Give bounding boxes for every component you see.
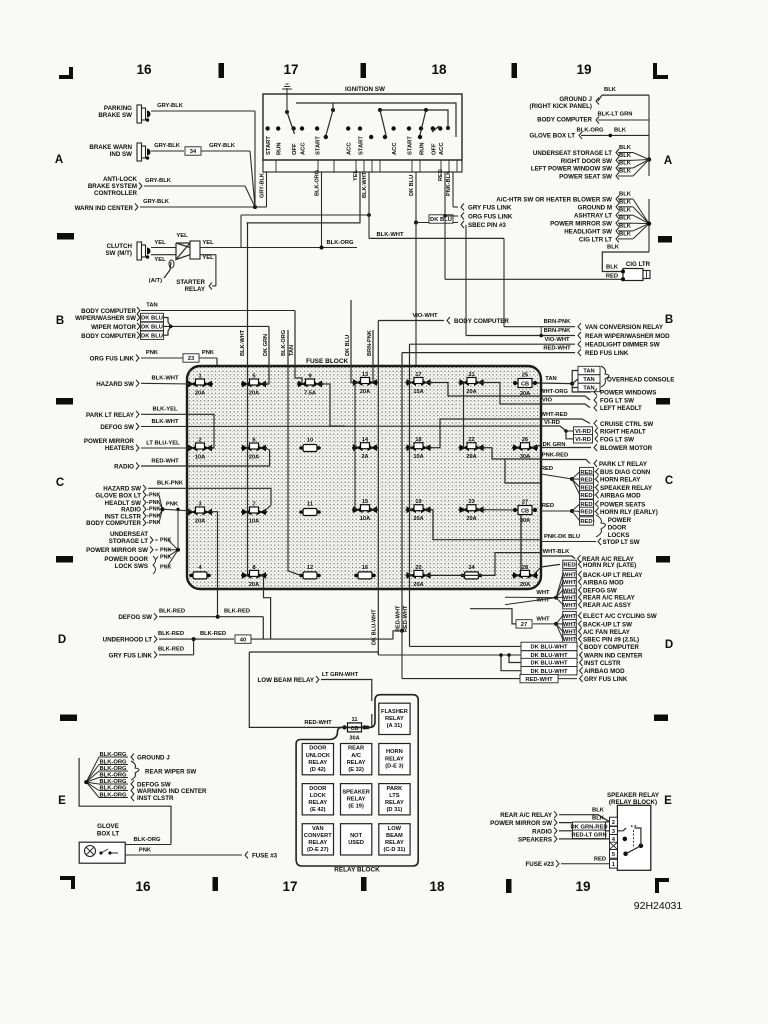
wire box outline region D <box>249 652 378 727</box>
svg-text:AIRBAG MOD: AIRBAG MOD <box>600 492 641 499</box>
svg-text:12: 12 <box>307 565 313 571</box>
warning ind center label E <box>131 787 207 795</box>
svg-text:BLK: BLK <box>614 128 627 134</box>
wire fuse17 right to WHT-ORG exit <box>427 383 542 397</box>
relay cell FLASHER RELAY (A 31) <box>379 703 410 734</box>
svg-text:RED: RED <box>541 466 553 472</box>
svg-text:15: 15 <box>362 499 368 505</box>
svg-text:BLK: BLK <box>604 87 617 93</box>
svg-text:STORAGE LT: STORAGE LT <box>109 538 149 545</box>
svg-text:BLK-ORG: BLK-ORG <box>281 330 287 356</box>
svg-text:ACC: ACC <box>301 142 307 155</box>
svg-text:16: 16 <box>135 879 151 894</box>
svg-text:GRY FUS LINK: GRY FUS LINK <box>109 652 153 659</box>
svg-text:DK BLU: DK BLU <box>141 333 163 339</box>
horn relay label (RED) <box>572 475 641 484</box>
svg-text:22: 22 <box>468 437 474 443</box>
svg-text:FOG LT SW: FOG LT SW <box>600 398 634 405</box>
svg-text:BLK-LT GRN: BLK-LT GRN <box>598 112 633 118</box>
svg-text:WARN IND CENTER: WARN IND CENTER <box>584 653 643 660</box>
svg-text:20A: 20A <box>520 582 530 588</box>
svg-text:ANTI-LOCK: ANTI-LOCK <box>103 176 138 183</box>
svg-text:DK BLU-WHT: DK BLU-WHT <box>530 645 567 651</box>
svg-text:5: 5 <box>252 374 255 380</box>
back-up lt relay label (WHT) <box>556 570 643 597</box>
airbag mod label (RED) <box>572 479 641 499</box>
svg-text:RED-WHT: RED-WHT <box>151 459 179 465</box>
speaker relay pin 5 <box>610 849 618 858</box>
wire vertical to rear wiper row <box>465 225 467 336</box>
svg-text:1: 1 <box>198 374 201 380</box>
svg-text:BLK-RED: BLK-RED <box>158 647 184 653</box>
rear wiper sw label E <box>131 761 196 780</box>
svg-text:RELAY: RELAY <box>347 760 366 766</box>
wire fuse22 right to PNK-RED exit <box>480 448 542 459</box>
defog sw label E <box>131 781 171 789</box>
svg-text:RED-WHT: RED-WHT <box>525 677 553 683</box>
svg-text:YEL: YEL <box>176 233 188 239</box>
wire BLK-WHT from ignition down and right <box>362 171 504 238</box>
svg-text:11: 11 <box>307 502 313 508</box>
speaker relay pin 3 <box>610 826 618 835</box>
ignition contact OFF pin x=293.6 <box>291 126 298 155</box>
svg-text:PNK: PNK <box>149 513 160 519</box>
registration tick top 17/18 <box>361 63 367 78</box>
svg-text:PNK: PNK <box>139 848 152 854</box>
fuse 1 20A <box>187 374 213 397</box>
svg-text:20A: 20A <box>249 391 259 397</box>
svg-text:HORN RLY (EARLY): HORN RLY (EARLY) <box>600 509 658 516</box>
clutch switch (M/T) <box>106 242 151 260</box>
svg-text:RELAY: RELAY <box>385 756 404 762</box>
svg-text:2: 2 <box>612 820 615 826</box>
svg-text:SBEC PIN #9 (2.5L): SBEC PIN #9 (2.5L) <box>583 636 639 643</box>
svg-text:VIO-WHT: VIO-WHT <box>544 337 570 343</box>
relay cell SPEAKER RELAY (E 19) <box>341 784 372 815</box>
svg-text:E: E <box>58 795 66 807</box>
svg-text:IND SW: IND SW <box>110 151 133 158</box>
svg-text:PNK: PNK <box>149 520 160 526</box>
gry fus link label D left <box>109 639 194 659</box>
svg-text:UNLOCK: UNLOCK <box>306 753 331 759</box>
svg-text:BLK-WHT: BLK-WHT <box>376 232 404 238</box>
svg-text:C: C <box>56 477 64 489</box>
svg-text:DEFOG SW: DEFOG SW <box>583 588 617 595</box>
svg-text:PNK: PNK <box>160 565 171 571</box>
svg-text:WHT-BLK: WHT-BLK <box>543 549 571 555</box>
fuse 23 20A <box>459 499 485 522</box>
wire fuse3 right down to defog junction <box>208 512 218 617</box>
junction node warn/brake wires <box>253 205 257 209</box>
svg-text:BODY COMPUTER: BODY COMPUTER <box>537 117 592 124</box>
circuit breaker 25 20A <box>513 373 537 398</box>
parking brake switch <box>98 105 150 123</box>
svg-text:92H24031: 92H24031 <box>634 900 683 912</box>
svg-text:PNK: PNK <box>160 538 171 544</box>
svg-text:PARK LT RELAY: PARK LT RELAY <box>86 412 135 419</box>
svg-text:20A: 20A <box>360 389 370 395</box>
svg-text:BODY COMPUTER: BODY COMPUTER <box>86 520 141 527</box>
svg-text:GRY-BLK: GRY-BLK <box>143 199 170 205</box>
registration tick bottom 16/17 <box>213 877 219 891</box>
svg-text:SPEAKER RELAY: SPEAKER RELAY <box>600 485 653 492</box>
svg-text:BLK-ORG: BLK-ORG <box>326 240 354 246</box>
wire DK BLU long vertical to fuse 13 <box>345 300 357 383</box>
underhood lt label <box>103 631 393 644</box>
wire BLK-ORG E fan 2 <box>86 759 128 782</box>
svg-text:START: START <box>408 136 414 155</box>
svg-text:LEFT HEADLT: LEFT HEADLT <box>600 405 642 412</box>
svg-text:20A: 20A <box>249 455 259 461</box>
svg-text:14: 14 <box>362 437 369 443</box>
svg-text:VIO: VIO <box>542 398 552 404</box>
svg-text:20A: 20A <box>466 389 476 395</box>
svg-text:YEL: YEL <box>202 255 214 261</box>
wire BLK-ORG into fuse block to fuse 6 <box>281 330 301 576</box>
svg-text:ELECT A/C CYCLING SW: ELECT A/C CYCLING SW <box>583 613 657 620</box>
body computer label right A <box>537 112 649 124</box>
circuit breaker 11 30A <box>342 717 366 742</box>
warn ind center label <box>75 199 255 212</box>
hazard sw label C <box>103 481 271 512</box>
svg-text:RELAY BLOCK: RELAY BLOCK <box>334 867 380 874</box>
svg-text:VAN: VAN <box>312 826 324 832</box>
svg-text:SPEAKER RELAY: SPEAKER RELAY <box>607 792 660 799</box>
rear a/c relay label (WHT) <box>556 593 636 602</box>
ignition contact ACC pin x=302 <box>300 126 307 155</box>
svg-text:B: B <box>665 314 673 326</box>
wire fuse25 right to TAN junction <box>537 382 572 385</box>
fuse 9 7.5A <box>297 374 323 397</box>
gry fus link label right <box>461 204 512 212</box>
svg-text:CB: CB <box>521 381 529 387</box>
wire BLK-ORG E fan 1 <box>86 752 128 782</box>
svg-text:BLK: BLK <box>619 208 632 214</box>
ignition switch box U1 <box>263 86 462 160</box>
svg-text:BRN-PNK: BRN-PNK <box>544 328 572 334</box>
svg-text:GRY-BLK: GRY-BLK <box>209 143 236 149</box>
svg-text:(RIGHT KICK PANEL): (RIGHT KICK PANEL) <box>530 103 592 110</box>
svg-text:WARNING IND CENTER: WARNING IND CENTER <box>137 788 207 795</box>
svg-text:LOCKS: LOCKS <box>608 532 630 539</box>
svg-text:CRUISE CTRL SW: CRUISE CTRL SW <box>600 421 653 428</box>
svg-text:17: 17 <box>415 372 421 378</box>
blower motor label <box>541 442 653 452</box>
power mirror sw label <box>550 216 649 228</box>
svg-text:(E 32): (E 32) <box>348 767 364 773</box>
svg-text:START: START <box>316 136 322 155</box>
wire fuse1 hazard internal <box>190 383 192 385</box>
svg-text:BACK-UP LT SW: BACK-UP LT SW <box>583 621 632 628</box>
svg-text:POWER SEATS: POWER SEATS <box>600 501 645 508</box>
wire CB27 to fuse28 link <box>520 515 522 571</box>
svg-text:BLK-PNK: BLK-PNK <box>157 481 184 487</box>
left headlt label <box>541 398 642 413</box>
registration tick bottom 18/19 <box>506 879 512 893</box>
svg-text:REAR A/C ASSY: REAR A/C ASSY <box>583 602 632 609</box>
red fan 1 junction <box>541 466 574 481</box>
svg-text:RADIO: RADIO <box>114 464 134 471</box>
svg-text:BACK-UP LT RELAY: BACK-UP LT RELAY <box>583 572 643 579</box>
ignition switch connector strip <box>263 160 462 172</box>
svg-text:PNK: PNK <box>202 350 215 356</box>
radio label B <box>114 448 270 471</box>
ignition contact START pin x=267.6 <box>265 126 272 155</box>
wire fuse21 right to VIO exit <box>480 383 542 405</box>
svg-text:PARK LT RELAY: PARK LT RELAY <box>599 461 648 468</box>
starter relay label <box>176 279 212 293</box>
relay cell PARK LTS RELAY (D 31) <box>379 784 410 815</box>
svg-text:LOCK SWS: LOCK SWS <box>115 563 148 570</box>
svg-text:RED: RED <box>580 477 592 483</box>
svg-text:24: 24 <box>468 565 475 571</box>
svg-text:BLK-RED: BLK-RED <box>224 609 250 615</box>
svg-text:(C-D 31): (C-D 31) <box>383 847 405 853</box>
wire DK BLU continues down to fuse 17 <box>415 223 417 379</box>
svg-text:BRN-PNK: BRN-PNK <box>367 330 373 356</box>
fuse 17 15A <box>406 372 432 395</box>
svg-text:FUSE BLOCK: FUSE BLOCK <box>306 358 349 365</box>
wire TAN into fuse block to fuse 9 <box>289 311 302 385</box>
svg-text:5: 5 <box>612 852 615 858</box>
svg-text:BLK: BLK <box>619 223 632 229</box>
svg-text:RELAY: RELAY <box>308 800 327 806</box>
power door lock sws label <box>104 550 178 574</box>
registration tick right C/D <box>656 556 670 563</box>
fuse #23 label speaker relay <box>525 857 609 869</box>
svg-text:PNK-BLK: PNK-BLK <box>446 171 452 196</box>
svg-text:SBEC PIN #3: SBEC PIN #3 <box>468 222 506 229</box>
svg-text:BLK: BLK <box>619 145 632 151</box>
svg-text:TAN: TAN <box>583 377 594 383</box>
power mirror sw label C <box>86 546 178 554</box>
junction node PNK fan 2 <box>176 508 180 552</box>
svg-text:RED-WHT: RED-WHT <box>304 720 332 726</box>
radio label speaker relay <box>532 822 609 835</box>
registration tick right B/C <box>656 398 670 405</box>
wire fuse18 right to WHT-RED exit <box>427 419 542 448</box>
svg-text:LOW BEAM RELAY: LOW BEAM RELAY <box>258 677 315 684</box>
junction node BLK bus A <box>647 157 651 161</box>
svg-text:19: 19 <box>415 499 421 505</box>
svg-text:FUSE #23: FUSE #23 <box>525 861 554 868</box>
svg-text:PNK: PNK <box>149 507 160 513</box>
wire BLK-ORG E fan 6 <box>86 782 128 791</box>
svg-text:WARN IND CENTER: WARN IND CENTER <box>75 205 134 212</box>
svg-text:ORG FUS LINK: ORG FUS LINK <box>90 356 135 363</box>
headlight dimmer sw label <box>410 337 660 349</box>
svg-text:40: 40 <box>240 637 246 643</box>
registration tick right D/E <box>654 715 668 722</box>
gry fus link label (RED-WHT) <box>402 674 628 683</box>
svg-text:DOOR: DOOR <box>309 746 326 752</box>
svg-text:LT GRN-WHT: LT GRN-WHT <box>322 672 359 678</box>
svg-text:17: 17 <box>282 879 297 894</box>
fuse 15 10A <box>352 499 378 522</box>
svg-text:LEFT POWER WINDOW SW: LEFT POWER WINDOW SW <box>531 166 612 173</box>
relay cell VAN CONVERT RELAY (D-E 27) <box>302 824 333 855</box>
svg-text:ORG FUS LINK: ORG FUS LINK <box>468 214 513 221</box>
svg-text:RUN: RUN <box>420 142 426 155</box>
red fus link label <box>402 346 629 358</box>
svg-text:16: 16 <box>362 565 368 571</box>
svg-text:RELAY: RELAY <box>385 800 404 806</box>
svg-text:RADIO: RADIO <box>532 828 552 835</box>
glove box lt label right A <box>529 128 649 140</box>
svg-text:POWER MIRROR SW: POWER MIRROR SW <box>550 221 612 228</box>
svg-text:START: START <box>266 136 272 155</box>
svg-text:(E 42): (E 42) <box>310 807 326 813</box>
svg-text:BLK: BLK <box>619 192 632 198</box>
svg-text:CONVERT: CONVERT <box>304 833 332 839</box>
svg-text:DEFOG SW: DEFOG SW <box>118 614 152 621</box>
wire fuse20 right to WHT-BLK exit <box>427 553 542 576</box>
svg-text:RED: RED <box>580 493 592 499</box>
svg-text:C: C <box>665 475 673 487</box>
power seat sw label <box>559 160 649 181</box>
wire BLK bus vertical right A <box>648 95 650 176</box>
svg-text:10A: 10A <box>413 454 423 460</box>
svg-text:A/C FAN RELAY: A/C FAN RELAY <box>583 629 631 636</box>
svg-text:DK GRN: DK GRN <box>263 334 269 356</box>
svg-text:WHT-RED: WHT-RED <box>540 412 567 418</box>
svg-text:SPEAKER: SPEAKER <box>342 789 370 795</box>
svg-text:YEL: YEL <box>353 170 359 181</box>
airbag mod label (DK BLU-WHT) <box>521 667 625 676</box>
fuse 22 20A <box>459 437 485 460</box>
wire vio-wht body computer B <box>378 313 509 655</box>
rear a/c relay label right C <box>541 549 635 563</box>
svg-text:A: A <box>664 155 672 167</box>
ground m label <box>578 199 649 223</box>
wire YEL pair from clutch switch <box>151 233 188 263</box>
stop lt sw label <box>541 534 640 546</box>
circuit breaker 11 relay block feed <box>342 714 371 741</box>
svg-text:BLK-RED: BLK-RED <box>200 631 226 637</box>
ignition contact START pin x=317.1 <box>315 126 322 155</box>
fog lt sw 2 label <box>566 431 634 443</box>
wire BLK-WHT into fuse block to fuse 5 left <box>240 223 248 576</box>
rear wiper/washer mod label <box>466 327 670 340</box>
blk-org fan group E <box>79 758 171 843</box>
svg-text:23: 23 <box>188 356 195 362</box>
svg-text:GROUND M: GROUND M <box>578 204 612 211</box>
svg-text:PARK: PARK <box>387 786 404 792</box>
svg-text:27: 27 <box>521 622 527 628</box>
ignition contact ACC pin x=348.2 <box>346 126 353 155</box>
wire 40 to red-wht junction <box>393 631 402 639</box>
svg-text:20A: 20A <box>195 519 205 525</box>
fuse 18 10A <box>406 437 432 460</box>
fuse position 10 (not used) <box>299 438 321 452</box>
svg-text:ACC: ACC <box>392 142 398 155</box>
svg-text:A: A <box>55 154 63 166</box>
svg-text:USED: USED <box>348 840 364 846</box>
registration corner mark bottom-left <box>60 876 75 889</box>
wire RED down to cig lighter <box>445 216 623 279</box>
wire BLK-ORG from ignition down to junction <box>315 170 324 250</box>
svg-text:20A: 20A <box>466 516 476 522</box>
svg-text:CIG LTR: CIG LTR <box>626 261 651 268</box>
svg-text:34: 34 <box>190 149 197 155</box>
speakers label speaker relay <box>518 830 610 843</box>
svg-text:BLK-ORG: BLK-ORG <box>576 128 604 134</box>
fuse position 16 (not used) <box>354 565 376 579</box>
svg-text:BLK-ORG: BLK-ORG <box>315 170 321 196</box>
underseat storage lt label <box>533 145 649 160</box>
wire fuse22 to RED exit <box>505 459 541 483</box>
relay cell DOOR LOCK RELAY (E 42) <box>302 784 333 815</box>
org fus link label right <box>461 213 513 221</box>
fuse 21 20A <box>459 372 485 395</box>
wire DK BLU wiper to fuse 5 right <box>263 326 269 384</box>
wire fuse28 right exit <box>533 567 541 575</box>
cig ltr lt label <box>579 224 649 244</box>
elect a/c cycling sw label (WHT) <box>556 611 657 624</box>
svg-text:DK BLU: DK BLU <box>430 217 452 223</box>
svg-text:6: 6 <box>252 438 255 444</box>
svg-text:A/C: A/C <box>351 753 361 759</box>
svg-text:20A: 20A <box>249 582 259 588</box>
svg-text:RED-LT GRN: RED-LT GRN <box>571 833 606 839</box>
wire BLK to cig lighter <box>602 245 649 272</box>
svg-text:WIPER MOTOR: WIPER MOTOR <box>91 324 136 331</box>
svg-text:28: 28 <box>522 565 528 571</box>
ignition switch blade 1 <box>285 94 295 134</box>
body computer label B left <box>81 303 295 316</box>
wire fuse15 right to below block <box>373 509 378 511</box>
back-up lt sw label (WHT) <box>556 620 632 629</box>
svg-text:WHT: WHT <box>563 614 577 620</box>
ignition contact RUN pin x=421 <box>419 126 426 155</box>
fuse 28 20A <box>512 565 538 588</box>
ashtray lt label <box>574 208 649 224</box>
wire BLK-ORG to glove box lamp <box>125 837 171 845</box>
svg-text:BLOWER MOTOR: BLOWER MOTOR <box>600 445 653 452</box>
svg-text:RUN: RUN <box>277 142 283 155</box>
svg-text:HORN RELAY: HORN RELAY <box>600 477 641 484</box>
wire DK BLU from ignition <box>409 172 458 225</box>
ignition contact START pin x=360 <box>358 126 365 155</box>
wire GRY-BLK from ignition pin down <box>260 172 267 207</box>
svg-text:POWER DOOR: POWER DOOR <box>104 556 148 563</box>
svg-text:AIRBAG MOD: AIRBAG MOD <box>584 668 625 675</box>
svg-text:27: 27 <box>522 500 528 506</box>
fuse position 4 (not used) <box>189 565 211 579</box>
svg-text:AIRBAG MOD: AIRBAG MOD <box>583 579 624 586</box>
svg-text:UNDERHOOD LT: UNDERHOOD LT <box>103 637 153 644</box>
svg-text:BODY COMPUTER: BODY COMPUTER <box>584 644 639 651</box>
registration tick left A/B <box>57 233 74 240</box>
svg-text:BLK: BLK <box>619 161 632 167</box>
rear a/c relay label speaker relay <box>500 808 609 822</box>
svg-text:B: B <box>56 315 64 327</box>
heater blower sw group labels <box>0 0 1 1</box>
registration corner mark top-left <box>59 67 73 79</box>
bus diag conn label (RED) <box>572 467 651 479</box>
svg-text:GRY-BLK: GRY-BLK <box>145 178 172 184</box>
svg-text:(D 42): (D 42) <box>310 767 326 773</box>
svg-text:BODY COMPUTER: BODY COMPUTER <box>454 318 509 325</box>
svg-text:GRY FUS LINK: GRY FUS LINK <box>584 676 628 683</box>
wire RED-WHT junction below block <box>400 629 404 679</box>
svg-text:20A: 20A <box>195 391 205 397</box>
svg-text:20: 20 <box>415 565 421 571</box>
svg-text:3: 3 <box>198 502 201 508</box>
svg-text:PARKING: PARKING <box>104 105 132 112</box>
svg-text:18: 18 <box>429 879 445 894</box>
wire fuse19 right to stop lt sw exit <box>427 510 542 540</box>
